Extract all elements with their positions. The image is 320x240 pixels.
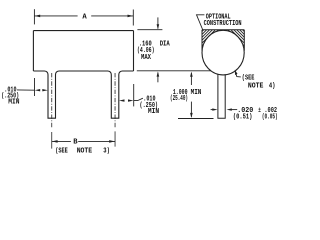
.010 right dimension [119, 84, 143, 106]
dimension A [34, 9, 133, 25]
svg-text:CONSTRUCTION: CONSTRUCTION [204, 20, 242, 28]
svg-text:(25.40): (25.40) [170, 95, 188, 103]
1.000 MIN dimension [178, 72, 214, 119]
svg-text:(SEE: (SEE [242, 75, 255, 83]
dimension B [52, 140, 115, 143]
lead 2 centerline [114, 73, 116, 147]
leader optional construction [197, 15, 205, 30]
svg-text:MAX: MAX [141, 54, 152, 62]
end view circle [202, 30, 244, 75]
end view lead tube [218, 74, 225, 118]
svg-text:MIN: MIN [8, 99, 19, 107]
svg-text:MIN: MIN [148, 108, 159, 116]
.020 dimension [211, 108, 238, 110]
svg-text:4): 4) [269, 83, 276, 91]
svg-text:(SEE: (SEE [55, 148, 68, 156]
hatch left corner [202, 30, 218, 46]
svg-text:A: A [82, 13, 87, 21]
.010 left dimension [17, 78, 48, 96]
bottom edge with lead fillets [33, 71, 133, 118]
hatch right corner [228, 30, 244, 46]
.160 DIA dimension [137, 17, 211, 82]
svg-text:3): 3) [103, 148, 110, 156]
optional construction square [202, 30, 244, 51]
svg-text:NOTE: NOTE [77, 148, 93, 156]
svg-text:(0.05): (0.05) [262, 114, 278, 122]
svg-text:B: B [73, 139, 78, 147]
svg-text:±: ± [258, 107, 261, 115]
lead 1 centerline [51, 73, 53, 149]
svg-text:(0.51): (0.51) [233, 114, 253, 122]
svg-text:NOTE: NOTE [248, 83, 264, 91]
leader see note 4 [235, 70, 241, 77]
body rectangle front view [33, 31, 133, 119]
svg-text:MIN: MIN [191, 89, 202, 97]
svg-text:DIA: DIA [160, 40, 171, 48]
